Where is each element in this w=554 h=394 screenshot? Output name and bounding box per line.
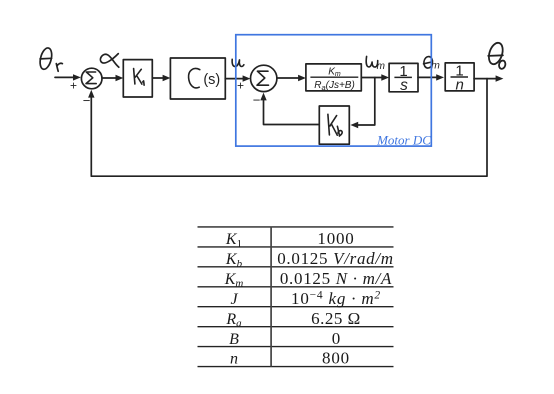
table rule row7	[198, 346, 394, 348]
handwritten labels	[70, 54, 464, 108]
svg-text:800: 800	[322, 349, 350, 368]
arrowhead into K1	[116, 75, 124, 81]
block 1/n gear	[445, 63, 474, 91]
arrowhead output	[496, 75, 504, 81]
svg-text:n: n	[456, 76, 464, 93]
label theta_m : theta part	[423, 56, 433, 69]
block diagram ink	[38, 47, 499, 176]
svg-text:m: m	[431, 60, 440, 72]
block 1/s integrator	[389, 63, 418, 91]
label u before S2	[232, 59, 244, 66]
svg-text:0.0125 N · m/A: 0.0125 N · m/A	[280, 269, 392, 288]
label alpha	[100, 54, 118, 68]
svg-text:0: 0	[332, 329, 341, 348]
svg-text:+: +	[70, 79, 77, 93]
table vertical divider	[270, 227, 272, 367]
block Kb	[319, 106, 349, 144]
svg-text:−: −	[83, 93, 91, 108]
wire branch down to Kb	[355, 78, 375, 126]
svg-text:+: +	[237, 78, 244, 92]
svg-text:0.0125 V/rad/m: 0.0125 V/rad/m	[277, 249, 394, 268]
svg-text:6.25 Ω: 6.25 Ω	[311, 309, 361, 328]
wire outer feedback from output node down and back to S1	[91, 79, 487, 177]
fraction line in 1/s	[394, 76, 412, 78]
svg-text:Motor DC: Motor DC	[376, 132, 431, 147]
arrowhead into S2	[243, 75, 251, 81]
arrowhead Kb to S2 bottom	[260, 93, 266, 101]
motor DC boundary box (blue)	[236, 35, 431, 146]
arrowhead into 1/s	[381, 74, 389, 80]
arrowhead into motor block	[298, 75, 306, 81]
summing junction S1	[81, 68, 102, 89]
parameter table	[198, 227, 394, 367]
svg-text:s: s	[400, 77, 408, 94]
wire S1 to K1	[102, 77, 120, 79]
fraction line in motor block	[310, 76, 358, 78]
svg-text:m: m	[377, 61, 385, 72]
label Kb inside block	[328, 114, 337, 135]
table rule row2	[198, 246, 394, 248]
wire 1/s to 1/n	[418, 76, 440, 78]
svg-text:B: B	[229, 331, 239, 348]
label omega before 1/s	[366, 56, 378, 67]
label C inside C(s) block	[189, 69, 200, 88]
arrowhead into C(s)	[163, 75, 171, 81]
block motor Km/(Ra(Js+B))	[306, 64, 361, 91]
svg-text:(s): (s)	[203, 72, 220, 88]
fraction line in 1/n	[451, 76, 469, 78]
wire Kb to S2 minus input	[264, 96, 320, 125]
arrowhead into S1	[73, 74, 81, 80]
arrowheads	[73, 74, 503, 128]
table rule row5	[198, 306, 394, 308]
wire C(s) to summing junction S2	[225, 78, 246, 80]
label K1 inside block	[134, 69, 142, 85]
sigma in S2	[257, 71, 269, 85]
sigma in S1	[86, 72, 96, 84]
table rule top	[198, 226, 394, 228]
wire motor block to 1/s with branch node	[361, 77, 385, 79]
block C(s) controller	[170, 58, 225, 99]
arrowhead into 1/n	[436, 74, 444, 80]
svg-text:Ra(Js+B): Ra(Js+B)	[314, 80, 355, 92]
summing junction S2	[251, 65, 277, 91]
wire input to summing junction S1	[55, 76, 77, 78]
wire output theta_o	[474, 78, 499, 80]
arrowhead into Kb	[350, 122, 358, 128]
svg-text:1000: 1000	[317, 229, 354, 248]
arrowhead feedback into S1 bottom	[88, 90, 94, 98]
table rule row3	[198, 266, 394, 268]
node theta_r input label	[38, 47, 62, 72]
svg-text:−: −	[253, 93, 261, 108]
svg-text:J: J	[230, 291, 238, 308]
svg-text:10−4 kg · m2: 10−4 kg · m2	[291, 289, 381, 308]
hand-drawn glyph strokes	[86, 56, 433, 136]
table rule row6	[198, 326, 394, 328]
node theta_o output label	[486, 41, 506, 69]
table rule row4	[198, 286, 394, 288]
svg-text:n: n	[230, 351, 238, 368]
wire S2 to motor block	[277, 77, 302, 79]
block K1	[123, 60, 152, 97]
wire K1 to C(s)	[152, 77, 166, 79]
table rule bottom	[198, 366, 394, 368]
